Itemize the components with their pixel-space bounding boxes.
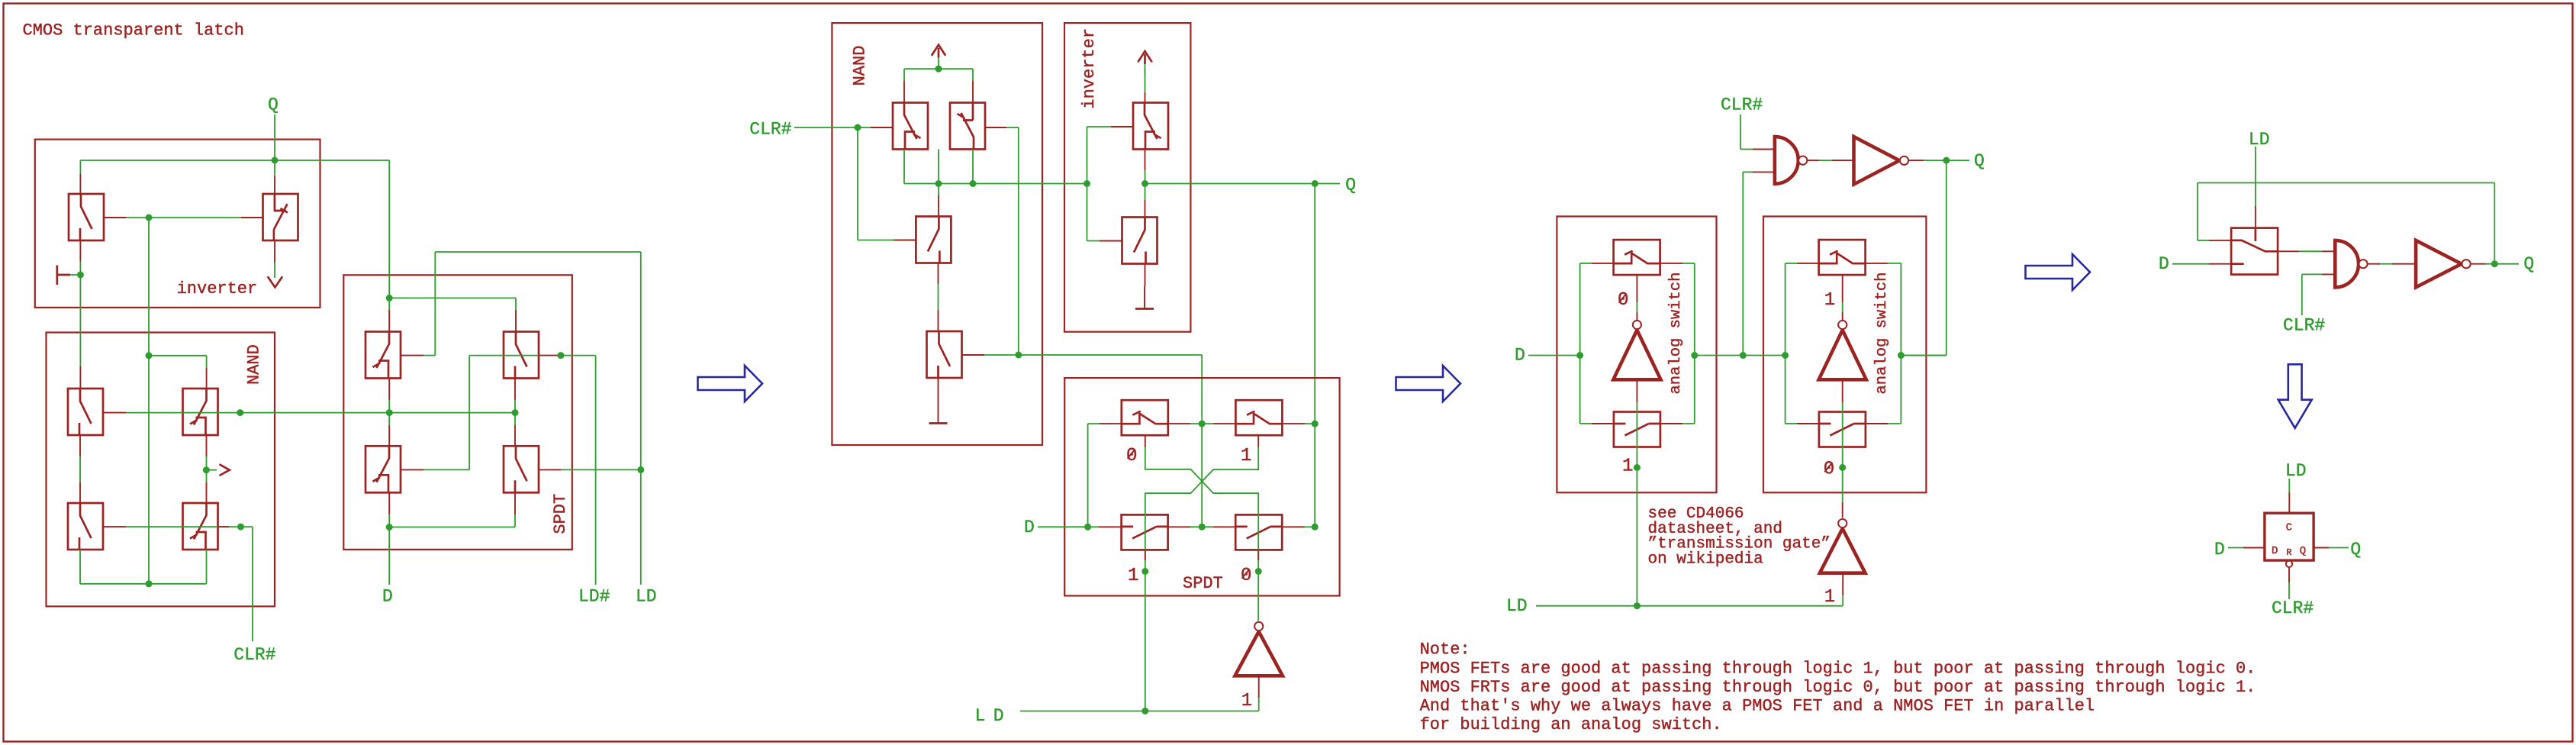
- svg-text:D: D: [2214, 540, 2225, 560]
- pin marker output down-arrow on inverter1 box edge: [268, 240, 282, 287]
- svg-text:R: R: [2286, 547, 2291, 558]
- transistor M2 PMOS (inverter1, mirrored+flipped): [263, 194, 298, 240]
- transistor M9 PMOS (SPDT1 bottom-left): [365, 446, 401, 492]
- wire Q pin (group 5): [2314, 547, 2349, 549]
- svg-text:for building an analog switch.: for building an analog switch.: [1420, 715, 1722, 734]
- svg-text:D: D: [382, 587, 393, 607]
- transistor M11 PMOS (NAND2 left, mirrored): [893, 103, 928, 150]
- wire mux output to NAND4: [2278, 250, 2335, 252]
- wire LD net (group 3): [1536, 573, 1843, 610]
- wire D net row (group 3): [1528, 352, 1946, 359]
- transistor M4 PMOS (NAND1): [183, 389, 218, 435]
- wire right cell pin columns: [1785, 263, 1901, 424]
- svg-text:PMOS FETs are good at passing: PMOS FETs are good at passing through lo…: [1420, 659, 2256, 678]
- wire NAND1 source rail (bottom): [80, 550, 207, 587]
- transistor M14 NMOS (NAND2 series lower): [927, 331, 962, 378]
- inverter U1 (LD to LD#, triangle up): [1235, 631, 1283, 676]
- wire NAND4 to inverter U8: [2367, 263, 2416, 265]
- wire CLR# to NAND4 input: [2302, 274, 2336, 315]
- wire SPDT2 gate cross-over (X): [1141, 435, 1261, 711]
- inverter U3 (group 3, triangle right): [1854, 137, 1900, 184]
- svg-text:LD: LD: [2285, 461, 2307, 481]
- note text block: [1420, 640, 2256, 734]
- transistor M6 PMOS (NAND1): [183, 503, 218, 550]
- svg-text:LD: LD: [1506, 596, 1528, 616]
- wire NAND2 output row: [904, 150, 1090, 188]
- wire inverter2 gate column: [1087, 127, 1134, 241]
- analog switch cell box (left): [1557, 217, 1716, 493]
- wire NAND1 pull-up drain / P2 top: [149, 356, 207, 389]
- svg-text:CMOS transparent latch: CMOS transparent latch: [23, 21, 244, 40]
- svg-text:NAND: NAND: [244, 344, 263, 385]
- svg-text:SPDT: SPDT: [1183, 574, 1223, 593]
- svg-text:1: 1: [1241, 446, 1251, 466]
- svg-text:LD: LD: [975, 706, 1012, 726]
- SPDT block box (group 1): [343, 275, 572, 550]
- svg-text:0: 0: [1241, 566, 1251, 586]
- wire Q net (group 1): [80, 114, 516, 332]
- wire Q output (group 4): [2471, 260, 2519, 267]
- SPDT block box (group 2): [1064, 378, 1339, 595]
- wire D net (group 2): [1038, 424, 1122, 531]
- wire NAND3 input B riser: [1740, 172, 1775, 359]
- inverter block box (group 2): [1064, 23, 1190, 332]
- inverter U5 (right cell, triangle up): [1819, 330, 1866, 379]
- wire D input (group 4): [2172, 263, 2231, 265]
- svg-text:1: 1: [1824, 587, 1835, 608]
- wire CLR# gate row (NAND1): [104, 524, 253, 642]
- svg-text:And that's why we always have: And that's why we always have a PMOS FET…: [1420, 696, 2095, 715]
- power VCC arrow (NAND2): [932, 45, 945, 58]
- svg-text:NAND: NAND: [851, 46, 870, 86]
- transistor M1 NMOS (inverter1 upper): [69, 194, 104, 240]
- transistor M5 NMOS (NAND1): [68, 503, 103, 550]
- svg-text:1: 1: [1128, 566, 1138, 586]
- arrow between group1 and group2: [698, 366, 763, 402]
- wire NAND1 output to P3, with direction arrow: [203, 435, 230, 503]
- wire inverter2 output / Q net (group 2): [1141, 150, 1340, 287]
- svg-text:SPDT: SPDT: [551, 494, 570, 534]
- wire CLR# net (group 2): [794, 124, 916, 240]
- transistor M23 (right cell top switch, horizontal P): [1819, 240, 1866, 275]
- svg-text:CLR#: CLR#: [2272, 598, 2314, 618]
- NAND block box (group 2): [832, 23, 1042, 445]
- inverter U6 (below right cell, triangle up): [1820, 529, 1866, 573]
- wire VCC rail (NAND2): [904, 66, 973, 103]
- transistor M17 (SPDT2 top-left, horizontal P): [1122, 400, 1168, 435]
- transistor M7 PMOS (SPDT1 top-left): [365, 332, 401, 379]
- svg-text:0: 0: [1618, 290, 1628, 311]
- svg-text:analog switch: analog switch: [1873, 273, 1891, 395]
- svg-text:Q: Q: [268, 95, 279, 115]
- transistor M21 (left cell top switch, horizontal P): [1614, 240, 1660, 275]
- ground symbol (inverter2): [1144, 286, 1145, 309]
- svg-text:analog switch: analog switch: [1667, 273, 1685, 395]
- wire LD to mux select (group 4): [2255, 147, 2256, 228]
- svg-text:1: 1: [1622, 456, 1633, 477]
- wire NAND1 N2-N3 series link: [79, 435, 81, 503]
- wire VCC to inverter2 P: [1145, 69, 1146, 103]
- wire SPDT1 left common column: [388, 379, 390, 447]
- transistor M20 (SPDT2 bottom-right, horizontal N): [1235, 514, 1282, 550]
- transistor M22 (left cell bottom switch, horizontal N): [1614, 412, 1660, 447]
- transistor M16 NMOS (inverter2, mirrored): [1122, 218, 1158, 264]
- svg-text:D: D: [1024, 518, 1035, 537]
- svg-text:Q: Q: [1345, 176, 1356, 195]
- inverter U4 (left cell, triangle up): [1613, 330, 1660, 379]
- svg-text:CLR#: CLR#: [749, 120, 791, 140]
- wire left cell gate links: [1634, 276, 1641, 606]
- wire Q feedback loop (group 4): [2198, 183, 2494, 264]
- arrow between group2 and group3: [1396, 366, 1461, 402]
- transistor M3 NMOS (NAND1): [68, 389, 103, 435]
- wire NAND3 output to inverter U3: [1807, 160, 1854, 161]
- power VCC arrow (inverter2): [1138, 51, 1151, 64]
- svg-text:D: D: [2272, 545, 2278, 557]
- wire SPDT1 right common column: [514, 379, 516, 447]
- svg-text:Q: Q: [2523, 254, 2534, 274]
- svg-text:CLR#: CLR#: [1721, 95, 1763, 115]
- transistor M10 NMOS (SPDT1 bottom-right): [504, 446, 539, 492]
- svg-text:Q: Q: [1974, 151, 1985, 171]
- pin marker input T-bar on inverter1 box edge: [57, 266, 70, 285]
- transistor M18 (SPDT2 top-right, horizontal P): [1235, 400, 1282, 435]
- svg-text:CLR#: CLR#: [233, 645, 275, 665]
- wire LD# net (group 1): [401, 352, 595, 585]
- svg-text:LD#: LD#: [578, 587, 610, 607]
- svg-text:CLR#: CLR#: [2283, 316, 2325, 336]
- transistor M15 PMOS (inverter2, mirrored): [1133, 103, 1168, 150]
- wire SPDT2 right pins to Q feedback: [1282, 424, 1315, 527]
- svg-text:NMOS FRTs are good at passing: NMOS FRTs are good at passing through lo…: [1420, 678, 2256, 697]
- wire M1 source to NAND1 (vertical): [70, 240, 84, 389]
- svg-text:on wikipedia: on wikipedia: [1648, 550, 1763, 568]
- NAND gate U2 (group 3): [1775, 137, 1798, 184]
- svg-text:0: 0: [1126, 446, 1137, 466]
- NAND gate U7 (group 4): [2335, 240, 2359, 288]
- svg-text:LD: LD: [636, 587, 657, 607]
- svg-text:inverter: inverter: [177, 279, 258, 298]
- svg-text:Q: Q: [2350, 540, 2361, 560]
- svg-text:1: 1: [1824, 290, 1835, 311]
- inverter U8 (group 4, triangle right): [2416, 240, 2462, 288]
- svg-text:inverter: inverter: [1080, 28, 1099, 109]
- svg-text:0: 0: [1824, 460, 1834, 480]
- wire left cell pin columns: [1580, 263, 1695, 424]
- latch reset bubble: [2286, 561, 2292, 567]
- arrow between group3 and group4: [2026, 254, 2091, 290]
- svg-text:D: D: [2159, 254, 2169, 274]
- wire inverter1-input to NAND1 internal node (vertical): [146, 218, 153, 587]
- svg-text:C: C: [2286, 522, 2292, 534]
- mux switch S1 (group 4): [2231, 228, 2278, 275]
- wire Q feedback column (group 2): [1312, 184, 1319, 531]
- transistor M12 PMOS (NAND2 right, flipped): [950, 103, 985, 150]
- wire D pin (group 5): [2228, 547, 2265, 549]
- wire NAND1 output row (SPDT common): [104, 409, 519, 416]
- D latch symbol U9: [2265, 513, 2314, 560]
- ground symbol (NAND2): [938, 400, 939, 424]
- svg-text:Note:: Note:: [1420, 640, 1470, 660]
- transistor M13 NMOS (NAND2 series upper, mirrored): [916, 217, 951, 263]
- transistor M19 (SPDT2 bottom-left, horizontal N): [1122, 514, 1168, 550]
- svg-text:D: D: [1515, 346, 1525, 366]
- svg-text:1: 1: [1241, 691, 1252, 711]
- wire CLR# pin (group 5): [2288, 567, 2290, 599]
- wire right cell gate links: [1839, 276, 1846, 518]
- analog switch cell box (right): [1763, 217, 1926, 493]
- svg-text:Q: Q: [2300, 545, 2306, 557]
- wire LD net (group 1): [401, 252, 644, 585]
- wire LD pin (group 5): [2288, 479, 2290, 513]
- transistor M8 NMOS (SPDT1 top-right): [504, 332, 539, 379]
- wire SPDT2 common column: [1168, 424, 1236, 527]
- svg-text:LD: LD: [2249, 130, 2270, 150]
- wire Q net (group 3): [1901, 157, 1969, 356]
- transistor M24 (right cell bottom switch, horizontal N): [1819, 412, 1866, 447]
- wire LD net (group 2): [1020, 676, 1259, 714]
- NAND block box (group 1): [47, 333, 275, 607]
- arrow down between group4 and group5: [2278, 364, 2312, 428]
- wire D net (group 1): [386, 493, 515, 585]
- wire NAND2 input B (P2b gate to N2d gate row): [962, 127, 1206, 531]
- wire CLR# to NAND3 input A: [1740, 114, 1775, 150]
- wire inverter1 input row: [104, 214, 263, 221]
- wire NAND2 N-stack links: [938, 150, 940, 401]
- inverter block box (group 1): [35, 140, 320, 308]
